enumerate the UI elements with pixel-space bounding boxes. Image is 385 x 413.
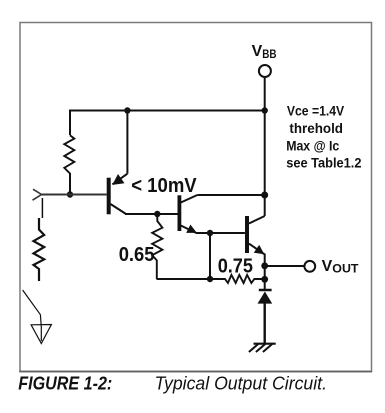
note text Vce	[286, 104, 361, 171]
node R4 left junction	[207, 276, 213, 282]
annotation arrow shaft	[23, 290, 42, 341]
node R4 right junction	[261, 276, 268, 283]
diode D1 triangle	[258, 292, 273, 304]
diode D1 cathode bar	[259, 289, 272, 292]
wire R1 bottom lead	[69, 173, 71, 195]
wire Q1 emitter vertical from rail	[126, 111, 128, 174]
transistor Q2 base bar	[178, 195, 182, 231]
input terminal chevron	[33, 189, 42, 200]
svg-text:0.65: 0.65	[119, 244, 155, 266]
transistor Q2 emitter arrowhead (NPN)	[186, 224, 197, 232]
wire R3 bottom to node	[157, 278, 211, 280]
node Q2 emitter junction	[207, 230, 213, 236]
svg-text:Typical Output Circuit.: Typical Output Circuit.	[155, 374, 328, 394]
svg-text:OUT: OUT	[332, 263, 358, 275]
wire VOUT node down	[264, 266, 266, 290]
ground bar	[254, 343, 276, 345]
terminal VOUT circle	[304, 261, 315, 272]
node Q1 emitter on rail	[124, 107, 130, 113]
svg-text:V: V	[322, 258, 333, 275]
transistor Q3 emitter arrowhead (NPN)	[254, 245, 264, 254]
node R1/base junction	[67, 191, 73, 197]
ground hatch strokes	[249, 344, 272, 352]
caption title	[155, 374, 328, 394]
transistor Q3 emitter diagonal	[249, 244, 264, 255]
svg-text:0.75: 0.75	[218, 256, 253, 278]
transistor Q2 emitter diagonal	[181, 226, 197, 234]
svg-text:see Table1.2: see Table1.2	[286, 156, 361, 171]
terminal VBB circle	[259, 65, 271, 77]
wire node down	[209, 233, 211, 279]
node R3 tap junction	[154, 211, 160, 217]
label 0.65	[119, 244, 155, 266]
resistor R2 (hand-drawn)	[34, 218, 45, 281]
node VBB rail junction	[262, 107, 268, 113]
wire top rail VBB	[70, 110, 265, 112]
transistor Q1 base bar	[107, 178, 111, 215]
svg-text:V: V	[252, 43, 263, 60]
wire Q2 collector to VBB line	[197, 194, 264, 196]
caption FIGURE 1-2	[18, 374, 112, 394]
resistor R3 0.65	[152, 214, 162, 279]
wire Q3 emitter down to VOUT node	[264, 254, 266, 267]
label 0.75	[218, 256, 253, 278]
resistor R4 0.75	[210, 275, 265, 283]
label VOUT	[322, 258, 359, 275]
wire diode to ground	[264, 303, 266, 344]
svg-text:BB: BB	[262, 49, 276, 61]
label VBB	[252, 43, 277, 61]
wire lead down to R2	[41, 198, 43, 218]
annotation arrow open triangle head	[31, 325, 51, 344]
svg-text:< 10mV: < 10mV	[131, 175, 197, 197]
wire R1 top lead	[69, 110, 71, 136]
frame border of figure	[19, 23, 372, 372]
transistor Q2 collector diagonal	[181, 195, 198, 203]
label < 10mV	[131, 175, 197, 197]
transistor Q1 emitter arrowhead (PNP, into bar)	[112, 174, 124, 185]
svg-text:Max @ Ic: Max @ Ic	[286, 138, 340, 153]
node Q2/Q3 collector junction	[261, 192, 268, 199]
svg-text:Vce =1.4V: Vce =1.4V	[287, 104, 344, 119]
svg-text:FIGURE 1-2:: FIGURE 1-2:	[18, 374, 112, 394]
transistor Q1 emitter diagonal	[113, 174, 128, 185]
transistor Q3 collector diagonal	[249, 216, 265, 224]
wire Q2 emitter to Q3 base	[196, 232, 245, 234]
transistor Q3 base bar	[245, 216, 249, 253]
transistor Q1 collector diagonal	[111, 204, 127, 214]
wire input to Q1 base	[42, 194, 107, 196]
resistor R1	[64, 135, 74, 173]
svg-text:threhold: threhold	[289, 121, 343, 136]
wire VOUT node to terminal	[265, 265, 305, 267]
wire Q1 collector to Q2 base	[125, 213, 178, 215]
wire Q3 collector vertical	[264, 195, 266, 216]
node VOUT junction	[261, 262, 268, 269]
wire VBB vertical	[264, 77, 266, 195]
